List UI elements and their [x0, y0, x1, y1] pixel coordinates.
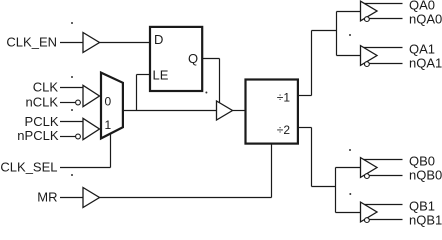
wire gated buffer to divider — [233, 110, 245, 112]
stray dot 4 — [205, 92, 207, 94]
bubble nCLK — [76, 100, 81, 105]
svg-text:MR: MR — [37, 190, 57, 205]
svg-text:QB0: QB0 — [409, 154, 435, 169]
latch block — [150, 27, 202, 91]
svg-text:QB1: QB1 — [409, 199, 435, 214]
svg-text:1: 1 — [105, 118, 112, 132]
gated buffer — [217, 101, 233, 120]
wire +2 output stub — [298, 127, 312, 129]
divider block — [246, 80, 298, 144]
input buffer CLK/nCLK — [83, 85, 100, 106]
svg-text:0: 0 — [105, 95, 112, 109]
wire branch vertical to LE — [136, 75, 138, 111]
bubble nPCLK — [76, 134, 81, 139]
svg-text:CLK_SEL: CLK_SEL — [0, 160, 57, 175]
wire MR long horizontal — [100, 197, 272, 199]
wire to QA0 buffer — [337, 11, 361, 13]
stray dot 1 — [71, 22, 73, 24]
output buffer QB0 — [361, 158, 403, 179]
wire Q output vertical to gating buffer — [219, 59, 221, 104]
wire MR vertical to divider — [271, 144, 273, 198]
wire +1 output stub — [298, 95, 312, 97]
svg-text:nPCLK: nPCLK — [17, 128, 59, 143]
stray dot 7 — [349, 193, 351, 195]
wire to QB1 buffer — [336, 212, 361, 214]
output buffer QB1 — [361, 202, 403, 222]
wire nCLK — [60, 102, 76, 104]
output buffer QA0 — [361, 1, 403, 21]
svg-text:Q: Q — [188, 51, 198, 66]
buffer CLK_EN — [83, 33, 100, 53]
stray dot extra — [71, 109, 73, 111]
stray dot 5 — [349, 34, 351, 36]
wire CLK — [60, 87, 83, 89]
wire CLK_SEL vertical to mux — [110, 134, 112, 168]
wire to QA1 buffer — [337, 55, 361, 57]
svg-text:nQA0: nQA0 — [409, 12, 442, 27]
wire LE input — [137, 74, 151, 76]
output buffer QA1 — [361, 46, 403, 67]
mux clock select — [101, 73, 123, 139]
wire CLK_SEL horizontal — [60, 167, 111, 169]
wire to QB0 buffer — [336, 167, 361, 169]
svg-text:nQB0: nQB0 — [409, 168, 442, 183]
svg-text:nQB1: nQB1 — [409, 213, 442, 228]
wire PCLK — [60, 121, 83, 123]
svg-text:LE: LE — [153, 68, 169, 83]
buffer MR — [83, 188, 100, 208]
wire +2 vertical down — [311, 128, 313, 187]
wire QB branch vertical — [335, 168, 337, 213]
svg-text:CLK_EN: CLK_EN — [6, 35, 57, 50]
wire mux output to gating buffer — [123, 110, 217, 112]
wire nPCLK — [60, 136, 76, 138]
svg-text:÷1: ÷1 — [277, 91, 291, 105]
wire +2 horizontal to QB branch — [312, 186, 336, 188]
svg-text:QA1: QA1 — [409, 42, 435, 57]
wire +1 horizontal to QA branch — [312, 30, 337, 32]
wire Q output horizontal — [202, 58, 220, 60]
svg-text:nQA1: nQA1 — [409, 56, 442, 71]
wire buffer to D input — [100, 42, 151, 44]
wire CLK_EN to buffer — [60, 42, 83, 44]
wire MR to buffer — [60, 197, 83, 199]
wire +1 vertical up — [311, 31, 313, 96]
stray dot 2 — [71, 76, 73, 78]
svg-text:CLK: CLK — [33, 80, 59, 95]
svg-text:÷2: ÷2 — [277, 123, 291, 137]
stray dot 3 — [71, 174, 73, 176]
svg-text:nCLK: nCLK — [25, 95, 58, 110]
input buffer PCLK/nPCLK — [83, 118, 100, 139]
stray dot 6 — [349, 149, 351, 151]
svg-text:D: D — [154, 32, 163, 47]
wire QA branch vertical — [336, 12, 338, 56]
svg-text:PCLK: PCLK — [25, 114, 59, 129]
